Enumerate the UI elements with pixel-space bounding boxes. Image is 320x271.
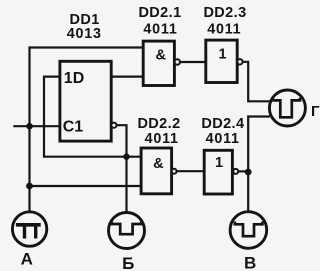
svg-text:DD2.4: DD2.4	[201, 116, 244, 132]
waveform source symbol V	[230, 212, 267, 249]
inversion bubble DD2.2 output	[172, 169, 177, 174]
wire: C1 input line with left stub	[13, 125, 60, 127]
NAND gate DD2.2 body	[141, 148, 172, 194]
wire: 1D feedback from node to D input	[44, 77, 141, 157]
inversion bubble DD2.4 output	[233, 169, 238, 174]
svg-text:DD2.3: DD2.3	[203, 5, 246, 21]
svg-text:4011: 4011	[207, 22, 241, 38]
inversion bubble DD2.1 output	[175, 59, 180, 64]
svg-text:&: &	[153, 156, 164, 172]
waveform source symbol B(Cyrillic Be)	[109, 213, 145, 249]
wire: DD2.2 output to DD2.4 input	[176, 170, 204, 172]
wire: Q output to DD2.1 input 2	[111, 75, 143, 77]
wire: top horizontal A to DD2.1 input 1	[29, 46, 144, 48]
waveform source symbol A	[12, 212, 46, 246]
svg-text:4011: 4011	[143, 22, 177, 38]
svg-text:Б: Б	[122, 254, 134, 271]
junction node A / C1	[26, 123, 33, 130]
wire: DD2.1 output to DD2.3 input	[180, 61, 206, 63]
waveform source symbol G	[269, 90, 305, 126]
svg-text:1D: 1D	[64, 70, 84, 87]
svg-text:4011: 4011	[145, 131, 179, 147]
inversion bubble DD1 Q-bar	[111, 123, 116, 128]
junction node Q-bar / DD2.2 input	[123, 154, 129, 160]
wire: A branch to DD2.2 input 2	[30, 185, 142, 187]
wire: G circle bottom stub down to V circle	[248, 117, 270, 212]
svg-text:А: А	[21, 250, 33, 269]
inversion bubble DD2.3 output	[237, 59, 242, 64]
svg-text:1: 1	[215, 155, 223, 171]
svg-text:&: &	[156, 48, 167, 64]
NAND gate DD2.1 body	[143, 41, 174, 85]
wire: Q-bar output down to B circle	[116, 125, 126, 212]
svg-text:1: 1	[218, 47, 226, 63]
flip-flop DD1 (4013) body	[60, 61, 111, 141]
svg-text:C1: C1	[63, 119, 84, 136]
junction node DD2.4 output / V	[245, 169, 252, 176]
wire: input A vertical bus	[28, 47, 30, 212]
svg-text:4013: 4013	[67, 26, 102, 42]
svg-text:В: В	[244, 254, 256, 271]
svg-text:DD2.1: DD2.1	[138, 5, 181, 21]
inverter DD2.4 body	[204, 150, 232, 194]
wire: DD2.3 output to G circle top stub	[243, 62, 270, 102]
svg-text:DD2.2: DD2.2	[137, 116, 180, 132]
wire: DD2.4 output to node	[239, 170, 249, 172]
svg-text:Г: Г	[311, 103, 320, 120]
inverter DD2.3 body	[206, 40, 237, 82]
svg-text:4011: 4011	[206, 131, 240, 147]
junction node A / DD2.2 input	[26, 183, 33, 190]
